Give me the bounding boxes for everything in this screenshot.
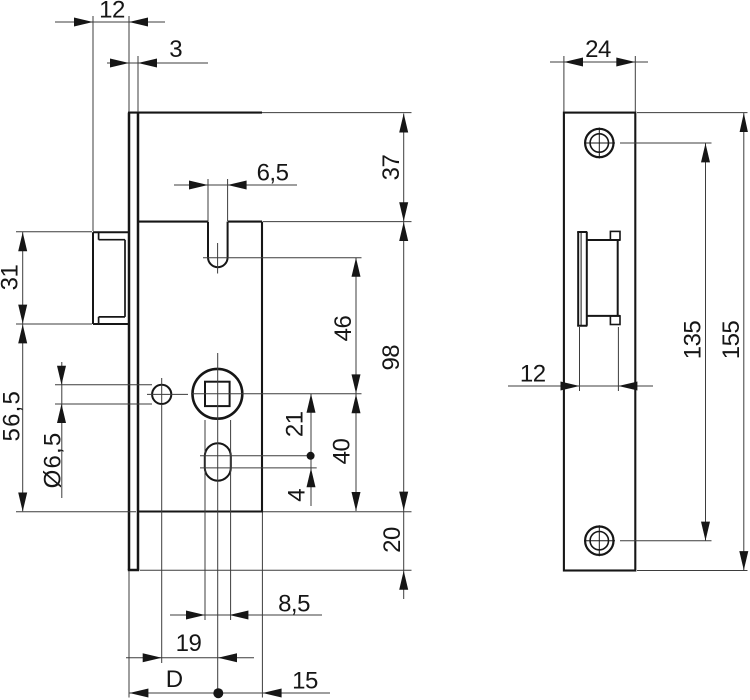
arrows 37	[399, 114, 408, 133]
ext latch front vertical	[92, 16, 94, 231]
dim line 24	[550, 61, 648, 63]
arrows 98	[399, 222, 408, 241]
strike plate outline	[564, 113, 635, 571]
dim line 6,5	[174, 184, 297, 186]
ext body front vertical top	[137, 56, 139, 112]
arrow D	[129, 689, 148, 698]
arrows 12	[74, 18, 93, 27]
ext oblong sides down to 8,5 dim	[205, 420, 231, 620]
arrows 155	[740, 113, 748, 132]
latch cutout with bent lip	[577, 231, 620, 325]
svg-text:46: 46	[330, 316, 357, 342]
ext faceplate front vertical top	[128, 16, 130, 112]
svg-text:D: D	[166, 666, 183, 693]
svg-text:135: 135	[680, 321, 707, 360]
ext body top to 37 dim	[262, 112, 412, 114]
arrow 21 top	[307, 394, 316, 413]
svg-text:31: 31	[0, 265, 24, 291]
arrows 8,5	[186, 611, 205, 620]
svg-text:15: 15	[292, 668, 318, 695]
dim line dia 6,5	[61, 362, 63, 498]
arrowheads (right view)	[561, 58, 749, 571]
svg-text:37: 37	[378, 155, 405, 181]
svg-text:12: 12	[99, 0, 125, 24]
dim line 46 / 40	[355, 258, 357, 511]
ext hole centres to 135 dim	[620, 143, 712, 541]
faceplate	[128, 113, 139, 570]
arrows 31	[18, 232, 27, 251]
ext latch top	[16, 231, 92, 233]
arrow 20 bottom (outside)	[399, 571, 408, 590]
svg-text:6,5: 6,5	[257, 160, 289, 187]
dim line 3	[107, 62, 208, 64]
arrow 15	[263, 689, 282, 698]
svg-text:19: 19	[176, 630, 202, 657]
svg-text:40: 40	[329, 439, 356, 465]
arrows 24	[564, 58, 583, 67]
arrow 4 (outside, below)	[307, 468, 316, 487]
tangent lines small circle	[55, 385, 152, 404]
ext body bottom	[16, 511, 412, 513]
centre line small circle	[147, 378, 188, 403]
dim line 19	[126, 657, 254, 659]
ext cutout sides down to 12 dim	[580, 327, 619, 391]
dim line 155	[743, 113, 745, 571]
svg-text:155: 155	[718, 321, 745, 360]
oblong cylinder hole	[205, 443, 231, 481]
centre line follower horizontal	[191, 393, 362, 395]
dim line 12	[55, 21, 165, 23]
svg-text:4: 4	[284, 489, 311, 502]
svg-text:12: 12	[520, 361, 546, 388]
ext small circle down to 19 dim	[161, 404, 163, 663]
ext plate corners to 155 dim	[637, 113, 748, 571]
dim line 8,5	[170, 614, 322, 616]
dim line 31 / 56,5	[22, 232, 24, 511]
arrows 6,5	[189, 181, 208, 190]
follower U1 (square spindle hub)	[193, 369, 243, 419]
svg-text:24: 24	[585, 36, 611, 63]
arrows 135	[701, 143, 710, 162]
ext case rear down to 15 dim	[261, 513, 263, 698]
arrows 40	[352, 394, 361, 413]
arrows 19	[143, 653, 162, 662]
svg-text:8,5: 8,5	[278, 591, 310, 618]
svg-text:56,5: 56,5	[0, 390, 26, 442]
arrows dia 6,5	[57, 366, 66, 385]
node dot D / 15	[213, 688, 223, 698]
arrows 56,5	[18, 324, 27, 343]
ext slot bottom centre	[203, 257, 362, 259]
node dot 21 reference	[307, 452, 315, 460]
centre line follower vertical / oblong axis	[217, 353, 219, 698]
lock case outline	[128, 113, 263, 512]
arrows 12	[561, 382, 580, 391]
screw hole top	[584, 128, 615, 159]
ext faceplate front down to D dim	[128, 571, 130, 698]
thin extension lines (right view)	[564, 56, 748, 571]
svg-text:21: 21	[282, 411, 309, 437]
dim line 37 / 98 / 20	[403, 114, 405, 600]
latch bolt	[93, 232, 129, 324]
ext body step to 98 dim	[263, 221, 412, 223]
ext latch bottom	[16, 323, 92, 325]
svg-text:98: 98	[378, 345, 405, 371]
svg-text:Ø6,5: Ø6,5	[40, 432, 67, 489]
arrows 46	[352, 258, 361, 277]
dim line 12	[508, 385, 653, 387]
arrows 3	[110, 59, 129, 68]
svg-text:20: 20	[379, 527, 406, 553]
centre lines oblong arcs	[200, 456, 317, 468]
ext faceplate bottom	[140, 569, 412, 571]
centre line slot	[217, 243, 219, 274]
dim line D / 15	[129, 692, 330, 694]
ext plate top corners up to 24 dim	[564, 56, 635, 112]
dim line 21 / 4	[310, 394, 312, 506]
dim line 135	[705, 143, 707, 541]
cylinder fixing hole (small circle)	[152, 385, 171, 404]
dimension lines (right view)	[508, 62, 744, 571]
ext slot sides	[208, 179, 228, 221]
dimension texts (right view)	[520, 36, 745, 388]
screw hole bottom	[584, 525, 615, 556]
spring slot	[208, 222, 228, 268]
svg-text:3: 3	[169, 36, 182, 63]
